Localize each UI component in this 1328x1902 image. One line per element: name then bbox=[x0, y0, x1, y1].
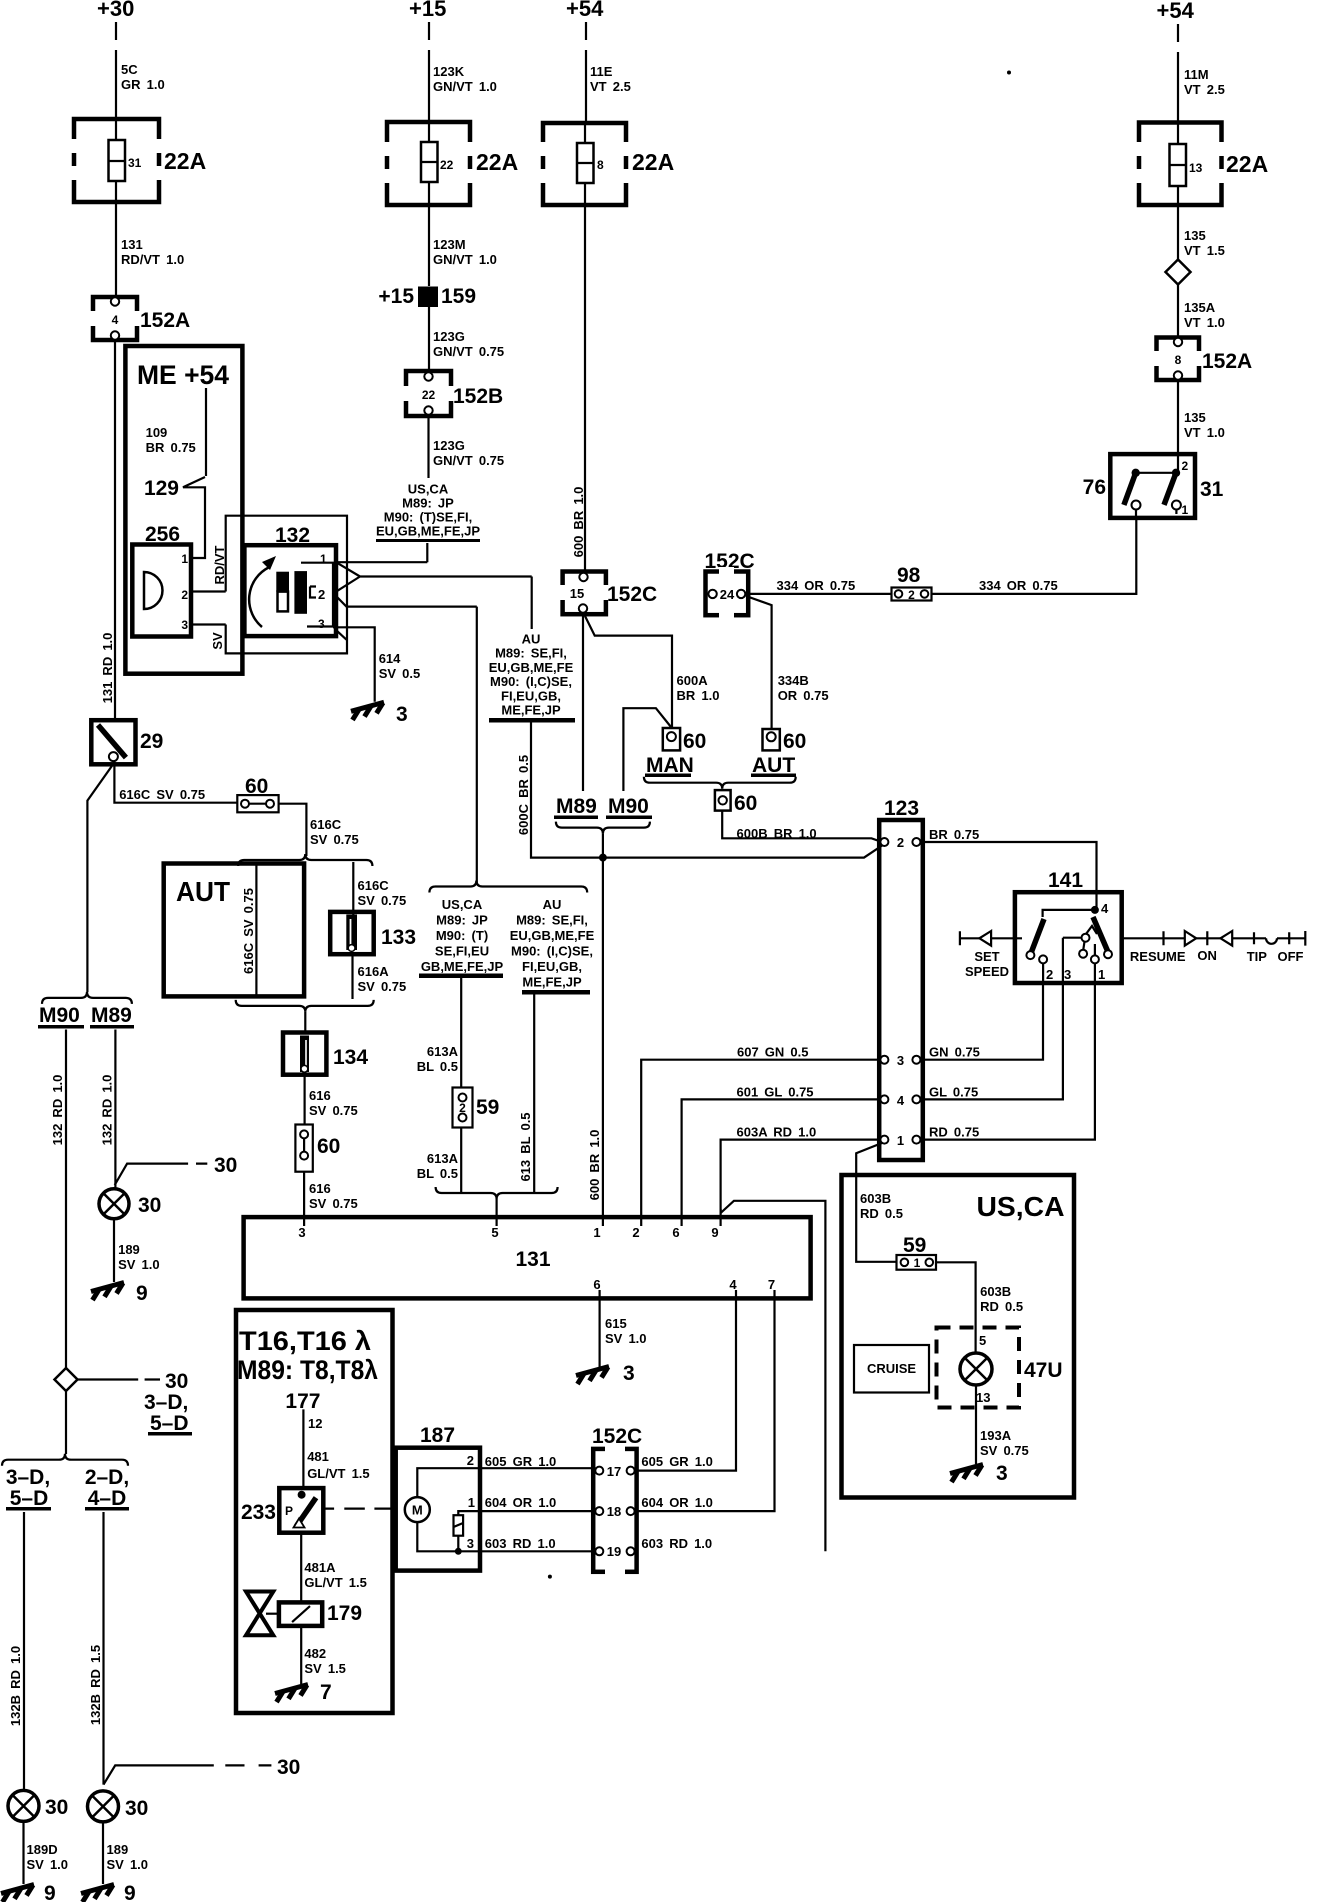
svg-text:334 OR 0.75: 334 OR 0.75 bbox=[979, 578, 1058, 593]
svg-text:13: 13 bbox=[1189, 161, 1203, 175]
svg-text:GN 0.75: GN 0.75 bbox=[929, 1045, 980, 1060]
svg-text:4: 4 bbox=[1101, 901, 1109, 916]
svg-text:614: 614 bbox=[379, 651, 401, 666]
svg-text:GN/VT 0.75: GN/VT 0.75 bbox=[433, 344, 504, 359]
svg-text:ON: ON bbox=[1197, 948, 1217, 963]
svg-text:4: 4 bbox=[112, 313, 119, 327]
svg-text:M90: (T): M90: (T) bbox=[436, 928, 488, 943]
svg-text:600 BR 1.0: 600 BR 1.0 bbox=[587, 1130, 602, 1201]
svg-text:2: 2 bbox=[467, 1453, 474, 1468]
svg-text:SV 1.5: SV 1.5 bbox=[304, 1661, 346, 1676]
svg-text:M89: M89 bbox=[556, 795, 597, 818]
svg-text:SV 1.0: SV 1.0 bbox=[605, 1331, 647, 1346]
svg-text:123G: 123G bbox=[433, 329, 465, 344]
svg-text:2: 2 bbox=[632, 1225, 639, 1240]
svg-text:SV 0.75: SV 0.75 bbox=[980, 1443, 1029, 1458]
svg-text:60: 60 bbox=[317, 1135, 340, 1158]
svg-text:M89: SE,FI,: M89: SE,FI, bbox=[495, 646, 567, 661]
svg-text:189D: 189D bbox=[27, 1842, 58, 1857]
svg-text:GN/VT 1.0: GN/VT 1.0 bbox=[433, 252, 497, 267]
svg-text:47U: 47U bbox=[1024, 1359, 1063, 1382]
svg-text:FI,EU,GB,: FI,EU,GB, bbox=[501, 688, 561, 703]
svg-text:30: 30 bbox=[125, 1797, 148, 1820]
svg-text:RD/VT 1.0: RD/VT 1.0 bbox=[121, 252, 184, 267]
svg-text:RD 0.5: RD 0.5 bbox=[980, 1299, 1023, 1314]
svg-text:4: 4 bbox=[729, 1277, 737, 1292]
svg-text:24: 24 bbox=[720, 587, 735, 602]
svg-text:1: 1 bbox=[897, 1133, 904, 1148]
svg-text:GN/VT 0.75: GN/VT 0.75 bbox=[433, 453, 504, 468]
svg-text:604 OR 1.0: 604 OR 1.0 bbox=[641, 1495, 713, 1510]
svg-text:US,CA: US,CA bbox=[977, 1191, 1065, 1222]
svg-text:M: M bbox=[412, 1503, 423, 1518]
svg-text:30: 30 bbox=[214, 1154, 237, 1177]
svg-text:EU,GB,ME,FE,JP: EU,GB,ME,FE,JP bbox=[376, 524, 480, 539]
svg-text:ME,FE,JP: ME,FE,JP bbox=[522, 975, 582, 990]
svg-text:31: 31 bbox=[128, 156, 142, 170]
svg-text:9: 9 bbox=[711, 1225, 718, 1240]
svg-text:SE,FI,EU: SE,FI,EU bbox=[435, 944, 489, 959]
svg-text:131: 131 bbox=[515, 1248, 550, 1271]
svg-text:9: 9 bbox=[124, 1882, 136, 1902]
svg-text:EU,GB,ME,FE: EU,GB,ME,FE bbox=[510, 928, 595, 943]
svg-text:M89: JP: M89: JP bbox=[436, 913, 488, 928]
svg-text:604 OR 1.0: 604 OR 1.0 bbox=[485, 1495, 557, 1510]
svg-text:22: 22 bbox=[422, 388, 436, 402]
svg-text:19: 19 bbox=[607, 1544, 621, 1559]
svg-text:8: 8 bbox=[597, 158, 604, 172]
svg-text:SV 0.75: SV 0.75 bbox=[309, 1103, 358, 1118]
svg-text:616A: 616A bbox=[358, 964, 390, 979]
svg-text:1: 1 bbox=[1098, 967, 1105, 982]
svg-text:3: 3 bbox=[467, 1536, 474, 1551]
svg-text:22A: 22A bbox=[1226, 151, 1268, 177]
svg-text:22A: 22A bbox=[476, 149, 518, 175]
svg-text:VT 1.5: VT 1.5 bbox=[1184, 243, 1225, 258]
svg-text:BR 0.75: BR 0.75 bbox=[146, 440, 196, 455]
svg-text:135A: 135A bbox=[1184, 300, 1216, 315]
svg-text:123: 123 bbox=[884, 797, 919, 820]
svg-text:131 RD 1.0: 131 RD 1.0 bbox=[100, 633, 115, 704]
svg-text:60: 60 bbox=[734, 792, 757, 815]
svg-text:481A: 481A bbox=[304, 1560, 336, 1575]
svg-text:P: P bbox=[285, 1504, 293, 1518]
svg-text:SPEED: SPEED bbox=[965, 964, 1009, 979]
svg-text:3: 3 bbox=[897, 1053, 904, 1068]
svg-text:189: 189 bbox=[107, 1842, 129, 1857]
svg-text:+54: +54 bbox=[1157, 0, 1195, 23]
svg-text:6: 6 bbox=[672, 1225, 679, 1240]
svg-text:M89: T8,T8λ: M89: T8,T8λ bbox=[237, 1355, 378, 1385]
svg-text:BL 0.5: BL 0.5 bbox=[417, 1166, 458, 1181]
svg-text:GB,ME,FE,JP: GB,ME,FE,JP bbox=[421, 959, 504, 974]
svg-text:OFF: OFF bbox=[1278, 949, 1304, 964]
svg-text:M90: M90 bbox=[608, 795, 649, 818]
svg-text:2: 2 bbox=[1182, 459, 1189, 473]
svg-text:59: 59 bbox=[903, 1234, 926, 1257]
svg-text:RD 0.5: RD 0.5 bbox=[860, 1206, 903, 1221]
svg-text:141: 141 bbox=[1048, 869, 1083, 892]
svg-text:4–D: 4–D bbox=[88, 1487, 127, 1510]
svg-text:BL 0.5: BL 0.5 bbox=[417, 1059, 458, 1074]
svg-text:US,CA: US,CA bbox=[408, 482, 449, 497]
svg-text:M90: M90 bbox=[39, 1004, 80, 1027]
svg-text:9: 9 bbox=[136, 1282, 148, 1305]
svg-text:TIP: TIP bbox=[1247, 949, 1268, 964]
svg-text:+15: +15 bbox=[378, 285, 414, 308]
svg-text:2–D,: 2–D, bbox=[85, 1466, 129, 1489]
svg-text:SV: SV bbox=[210, 632, 225, 650]
svg-text:AU: AU bbox=[543, 897, 562, 912]
svg-text:SV 0.5: SV 0.5 bbox=[379, 666, 421, 681]
svg-text:GR 1.0: GR 1.0 bbox=[121, 77, 165, 92]
svg-text:VT 2.5: VT 2.5 bbox=[590, 79, 631, 94]
svg-text:2: 2 bbox=[181, 588, 188, 602]
svg-text:9: 9 bbox=[44, 1882, 56, 1902]
svg-text:3: 3 bbox=[181, 618, 188, 632]
svg-text:T16,T16 λ: T16,T16 λ bbox=[239, 1326, 371, 1356]
svg-text:98: 98 bbox=[897, 564, 921, 587]
svg-text:481: 481 bbox=[307, 1449, 329, 1464]
svg-text:1: 1 bbox=[181, 552, 188, 566]
svg-text:76: 76 bbox=[1083, 476, 1106, 499]
svg-text:616C: 616C bbox=[310, 817, 342, 832]
svg-text:18: 18 bbox=[607, 1504, 621, 1519]
svg-text:BR 0.75: BR 0.75 bbox=[929, 827, 979, 842]
svg-text:3: 3 bbox=[298, 1225, 305, 1240]
svg-text:613A: 613A bbox=[427, 1151, 459, 1166]
svg-text:31: 31 bbox=[1200, 478, 1224, 501]
svg-text:605 GR 1.0: 605 GR 1.0 bbox=[641, 1454, 713, 1469]
svg-text:5C: 5C bbox=[121, 62, 138, 77]
svg-text:GL 0.75: GL 0.75 bbox=[929, 1084, 978, 1099]
svg-text:12: 12 bbox=[308, 1416, 322, 1431]
svg-text:22A: 22A bbox=[632, 149, 674, 175]
svg-text:179: 179 bbox=[327, 1602, 362, 1625]
svg-text:ME +54: ME +54 bbox=[137, 360, 229, 390]
svg-text:132 RD 1.0: 132 RD 1.0 bbox=[50, 1075, 65, 1146]
svg-text:GL/VT 1.5: GL/VT 1.5 bbox=[304, 1575, 366, 1590]
svg-text:3: 3 bbox=[1064, 967, 1071, 982]
svg-text:132B RD 1.5: 132B RD 1.5 bbox=[88, 1645, 103, 1725]
svg-text:60: 60 bbox=[683, 730, 706, 753]
svg-text:133: 133 bbox=[381, 926, 416, 949]
svg-text:600A: 600A bbox=[677, 673, 709, 688]
svg-text:29: 29 bbox=[140, 730, 163, 753]
svg-text:134: 134 bbox=[333, 1046, 368, 1069]
svg-text:+54: +54 bbox=[566, 0, 604, 21]
svg-text:3: 3 bbox=[318, 617, 325, 631]
svg-text:SV 0.75: SV 0.75 bbox=[358, 979, 407, 994]
svg-text:5–D: 5–D bbox=[150, 1412, 189, 1435]
svg-text:7: 7 bbox=[768, 1277, 775, 1292]
svg-text:ME,FE,JP: ME,FE,JP bbox=[501, 703, 561, 718]
svg-text:1: 1 bbox=[1182, 503, 1189, 517]
svg-text:616: 616 bbox=[309, 1181, 331, 1196]
svg-text:605 GR 1.0: 605 GR 1.0 bbox=[485, 1454, 557, 1469]
svg-text:1: 1 bbox=[468, 1495, 475, 1510]
svg-text:30: 30 bbox=[138, 1194, 161, 1217]
svg-text:193A: 193A bbox=[980, 1428, 1012, 1443]
svg-text:2: 2 bbox=[908, 588, 915, 602]
svg-text:616C SV 0.75: 616C SV 0.75 bbox=[119, 787, 205, 802]
svg-text:30: 30 bbox=[277, 1756, 300, 1779]
svg-text:8: 8 bbox=[1175, 353, 1182, 367]
svg-text:152A: 152A bbox=[140, 309, 190, 332]
svg-text:131: 131 bbox=[121, 237, 143, 252]
svg-text:334B: 334B bbox=[778, 673, 809, 688]
svg-text:VT 2.5: VT 2.5 bbox=[1184, 82, 1225, 97]
svg-text:616C: 616C bbox=[358, 878, 390, 893]
svg-text:152A: 152A bbox=[1202, 350, 1252, 373]
svg-text:M90: (I,C)SE,: M90: (I,C)SE, bbox=[511, 944, 593, 959]
svg-text:17: 17 bbox=[607, 1464, 621, 1479]
svg-text:613A: 613A bbox=[427, 1044, 459, 1059]
svg-text:603 RD 1.0: 603 RD 1.0 bbox=[641, 1536, 712, 1551]
svg-text:3: 3 bbox=[623, 1362, 635, 1385]
svg-text:603B: 603B bbox=[980, 1284, 1011, 1299]
svg-text:15: 15 bbox=[570, 586, 584, 601]
svg-text:EU,GB,ME,FE: EU,GB,ME,FE bbox=[489, 660, 574, 675]
svg-text:607 GN 0.5: 607 GN 0.5 bbox=[737, 1045, 809, 1060]
svg-text:152B: 152B bbox=[453, 385, 503, 408]
svg-text:M89: JP: M89: JP bbox=[402, 496, 454, 511]
svg-text:11M: 11M bbox=[1184, 67, 1209, 82]
svg-text:CRUISE: CRUISE bbox=[867, 1361, 916, 1376]
svg-text:482: 482 bbox=[304, 1646, 326, 1661]
svg-text:2: 2 bbox=[897, 835, 904, 850]
svg-text:11E: 11E bbox=[590, 64, 613, 79]
svg-text:30: 30 bbox=[45, 1796, 68, 1819]
svg-text:1: 1 bbox=[593, 1225, 600, 1240]
svg-text:2: 2 bbox=[459, 1101, 466, 1115]
svg-text:189: 189 bbox=[118, 1242, 140, 1257]
svg-text:FI,EU,GB,: FI,EU,GB, bbox=[522, 959, 582, 974]
svg-text:22: 22 bbox=[440, 158, 454, 172]
svg-text:RD 0.75: RD 0.75 bbox=[929, 1125, 979, 1140]
svg-text:SV 1.0: SV 1.0 bbox=[27, 1857, 69, 1872]
svg-text:AUT: AUT bbox=[176, 876, 230, 907]
svg-text:US,CA: US,CA bbox=[442, 897, 483, 912]
svg-text:3: 3 bbox=[996, 1462, 1008, 1485]
svg-text:613 BL 0.5: 613 BL 0.5 bbox=[518, 1112, 533, 1181]
svg-text:5–D: 5–D bbox=[10, 1487, 49, 1510]
svg-text:334 OR 0.75: 334 OR 0.75 bbox=[777, 578, 856, 593]
svg-text:1: 1 bbox=[914, 1256, 921, 1270]
svg-text:603 RD 1.0: 603 RD 1.0 bbox=[485, 1536, 556, 1551]
svg-text:4: 4 bbox=[897, 1093, 905, 1108]
svg-text:OR 0.75: OR 0.75 bbox=[778, 688, 829, 703]
svg-text:123K: 123K bbox=[433, 64, 465, 79]
svg-text:3–D,: 3–D, bbox=[6, 1466, 50, 1489]
svg-text:GN/VT 1.0: GN/VT 1.0 bbox=[433, 79, 497, 94]
svg-text:SV 0.75: SV 0.75 bbox=[309, 1196, 358, 1211]
svg-text:135: 135 bbox=[1184, 228, 1206, 243]
svg-text:129: 129 bbox=[144, 477, 179, 500]
svg-text:601 GL 0.75: 601 GL 0.75 bbox=[737, 1084, 814, 1099]
svg-text:132B RD 1.0: 132B RD 1.0 bbox=[8, 1646, 23, 1726]
svg-text:2: 2 bbox=[1046, 967, 1053, 982]
svg-text:SV 1.0: SV 1.0 bbox=[118, 1257, 160, 1272]
svg-text:233: 233 bbox=[241, 1501, 276, 1524]
svg-text:22A: 22A bbox=[164, 148, 206, 174]
svg-text:BR 1.0: BR 1.0 bbox=[677, 688, 720, 703]
svg-text:7: 7 bbox=[320, 1681, 332, 1704]
svg-text:AU: AU bbox=[522, 632, 541, 647]
svg-text:M90: (I,C)SE,: M90: (I,C)SE, bbox=[490, 674, 572, 689]
svg-text:123M: 123M bbox=[433, 237, 466, 252]
svg-text:2: 2 bbox=[318, 587, 325, 602]
svg-text:SET: SET bbox=[974, 949, 999, 964]
svg-text:600C BR 0.5: 600C BR 0.5 bbox=[516, 755, 531, 835]
svg-text:SV 1.0: SV 1.0 bbox=[107, 1857, 149, 1872]
svg-text:159: 159 bbox=[441, 285, 476, 308]
svg-text:SV 0.75: SV 0.75 bbox=[310, 832, 359, 847]
svg-text:616C SV 0.75: 616C SV 0.75 bbox=[241, 888, 256, 974]
svg-text:SV 0.75: SV 0.75 bbox=[358, 893, 407, 908]
svg-text:6: 6 bbox=[593, 1277, 600, 1292]
svg-text:615: 615 bbox=[605, 1316, 627, 1331]
svg-text:60: 60 bbox=[783, 730, 806, 753]
svg-text:1: 1 bbox=[320, 552, 327, 566]
svg-text:13: 13 bbox=[976, 1390, 990, 1405]
svg-text:600B BR 1.0: 600B BR 1.0 bbox=[737, 826, 817, 841]
svg-text:M89: M89 bbox=[91, 1004, 132, 1027]
svg-text:616: 616 bbox=[309, 1088, 331, 1103]
svg-text:M90: (T)SE,FI,: M90: (T)SE,FI, bbox=[384, 510, 472, 525]
svg-text:152C: 152C bbox=[607, 583, 657, 606]
svg-text:3–D,: 3–D, bbox=[144, 1391, 188, 1414]
svg-text:135: 135 bbox=[1184, 410, 1206, 425]
svg-text:+15: +15 bbox=[409, 0, 446, 21]
svg-text:600 BR 1.0: 600 BR 1.0 bbox=[571, 487, 586, 558]
svg-text:59: 59 bbox=[476, 1096, 499, 1119]
svg-text:VT 1.0: VT 1.0 bbox=[1184, 425, 1225, 440]
svg-text:+30: +30 bbox=[97, 0, 134, 21]
svg-text:123G: 123G bbox=[433, 438, 465, 453]
svg-text:3: 3 bbox=[396, 703, 408, 726]
svg-text:30: 30 bbox=[165, 1370, 188, 1393]
svg-text:5: 5 bbox=[979, 1333, 986, 1348]
svg-text:109: 109 bbox=[146, 425, 168, 440]
svg-text:VT 1.0: VT 1.0 bbox=[1184, 315, 1225, 330]
svg-text:5: 5 bbox=[491, 1225, 498, 1240]
svg-text:M89: SE,FI,: M89: SE,FI, bbox=[516, 913, 588, 928]
svg-text:187: 187 bbox=[420, 1424, 455, 1447]
svg-text:GL/VT 1.5: GL/VT 1.5 bbox=[307, 1466, 369, 1481]
svg-text:RESUME: RESUME bbox=[1130, 949, 1186, 964]
svg-text:132 RD 1.0: 132 RD 1.0 bbox=[100, 1075, 115, 1146]
svg-text:603A RD 1.0: 603A RD 1.0 bbox=[737, 1125, 817, 1140]
svg-text:603B: 603B bbox=[860, 1191, 891, 1206]
